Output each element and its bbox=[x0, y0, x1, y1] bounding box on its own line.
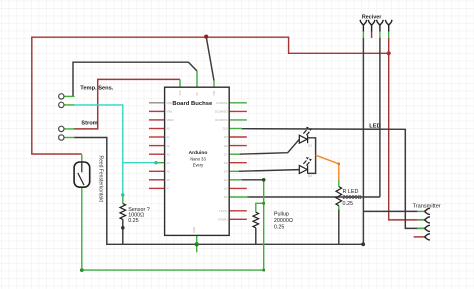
svg-text:Arduino: Arduino bbox=[189, 150, 208, 156]
svg-text:D3: D3 bbox=[224, 187, 228, 191]
svg-text:D7: D7 bbox=[224, 152, 228, 156]
svg-text:20000Ω: 20000Ω bbox=[274, 218, 293, 224]
svg-text:VREF: VREF bbox=[167, 118, 175, 122]
svg-text:D6: D6 bbox=[224, 161, 228, 165]
svg-text:A6: A6 bbox=[167, 178, 171, 182]
svg-text:A4: A4 bbox=[167, 161, 171, 165]
svg-text:A3: A3 bbox=[167, 152, 171, 156]
svg-text:D2: D2 bbox=[308, 174, 312, 178]
svg-text:MISO1: MISO1 bbox=[167, 101, 176, 105]
svg-text:5V: 5V bbox=[195, 92, 199, 95]
svg-text:D12/MISO: D12/MISO bbox=[215, 110, 228, 114]
svg-text:D5: D5 bbox=[224, 170, 228, 174]
svg-text:D1: D1 bbox=[308, 144, 312, 148]
svg-text:D13/SCK: D13/SCK bbox=[216, 101, 227, 105]
svg-text:LED: LED bbox=[369, 124, 380, 130]
svg-text:A5: A5 bbox=[167, 170, 171, 174]
svg-text:A7: A7 bbox=[167, 187, 171, 191]
svg-text:Pullup: Pullup bbox=[274, 212, 289, 218]
svg-text:D2: D2 bbox=[224, 195, 228, 199]
svg-text:GND: GND bbox=[192, 227, 196, 233]
svg-text:0.25: 0.25 bbox=[343, 201, 354, 207]
svg-text:3V3: 3V3 bbox=[178, 90, 182, 95]
svg-text:Nano 33: Nano 33 bbox=[190, 157, 206, 162]
svg-text:Reciver: Reciver bbox=[362, 14, 382, 20]
svg-text:Transmitter: Transmitter bbox=[413, 203, 441, 209]
svg-text:Board Buchse: Board Buchse bbox=[172, 101, 213, 107]
svg-text:D11/MOSI: D11/MOSI bbox=[215, 118, 228, 122]
svg-text:D4: D4 bbox=[224, 178, 228, 182]
svg-text:A0: A0 bbox=[167, 127, 171, 131]
svg-text:0.25: 0.25 bbox=[274, 224, 285, 230]
svg-text:VIN1: VIN1 bbox=[167, 110, 173, 114]
svg-text:D9: D9 bbox=[224, 135, 228, 139]
svg-text:A1: A1 bbox=[167, 135, 171, 139]
svg-text:TX1/Tx: TX1/Tx bbox=[219, 209, 228, 213]
svg-text:Every: Every bbox=[193, 163, 204, 168]
svg-text:D8: D8 bbox=[224, 144, 228, 148]
svg-text:D10: D10 bbox=[223, 127, 228, 131]
svg-text:A2: A2 bbox=[167, 144, 171, 148]
svg-text:0.25: 0.25 bbox=[128, 218, 139, 224]
svg-text:Strom: Strom bbox=[81, 121, 97, 127]
svg-text:Reed Fensterkontakt: Reed Fensterkontakt bbox=[98, 156, 104, 203]
svg-text:Temp. Sens.: Temp. Sens. bbox=[80, 86, 113, 92]
svg-text:RX0/Rx: RX0/Rx bbox=[218, 218, 228, 222]
svg-text:VIN: VIN bbox=[212, 91, 216, 96]
